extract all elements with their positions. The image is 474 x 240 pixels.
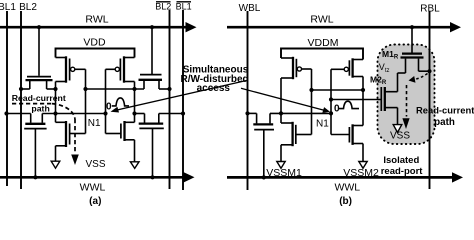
svg-text:path: path [31,103,49,113]
svg-text:read-port: read-port [381,166,424,177]
svg-text:Read-current: Read-current [12,93,66,103]
svg-text:VDD: VDD [83,37,106,49]
svg-text:RBL: RBL [420,4,440,15]
svg-text:(a): (a) [89,196,101,206]
svg-text:Isolated: Isolated [383,155,419,166]
svg-text:VSSM2: VSSM2 [343,167,379,179]
svg-text:(b): (b) [339,196,352,206]
svg-text:BL1: BL1 [0,2,16,13]
svg-text:N1: N1 [88,118,101,129]
svg-text:Read-current: Read-current [416,105,474,116]
svg-text:VSSM1: VSSM1 [266,167,302,179]
svg-text:WWL: WWL [334,181,360,193]
svg-text:RWL: RWL [85,13,108,25]
svg-text:WBL: WBL [239,3,261,14]
svg-text:VSS: VSS [390,130,410,141]
svg-text:BL2: BL2 [155,1,171,11]
svg-text:VSS: VSS [86,159,106,170]
svg-text:0: 0 [334,103,340,114]
svg-text:N1: N1 [316,119,329,130]
svg-text:BL1: BL1 [176,1,192,11]
svg-text:RWL: RWL [310,14,333,26]
svg-text:0: 0 [106,101,112,112]
svg-text:WWL: WWL [80,181,106,193]
svg-text:path: path [434,117,455,128]
svg-text:BL2: BL2 [19,2,37,13]
svg-text:VDDM: VDDM [308,37,339,49]
